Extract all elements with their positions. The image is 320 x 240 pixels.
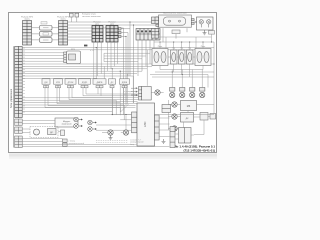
main relay (left of row): [152, 49, 168, 66]
svg-text:ДС: ДС: [50, 132, 53, 134]
ignition switch label: [163, 13, 187, 15]
ground under lamp box: [203, 30, 207, 35]
sensor DTOZh: [65, 79, 76, 84]
junction dots: [96, 21, 215, 115]
arrows into diag box: [131, 87, 138, 96]
ECU strip row lines: [15, 50, 23, 114]
connector XS2 grid: [59, 21, 68, 46]
lamp 2: [207, 20, 211, 24]
coil connector blocks (4x along top right): [170, 88, 205, 92]
svg-text:батареи: батареи: [130, 144, 137, 146]
ECU harness wires (horizontal bundle): [22, 48, 214, 79]
wires ignition module area: [168, 100, 214, 135]
APS immobilizer left pin column: [132, 112, 137, 133]
relay K3: [40, 38, 53, 43]
connector X3 pin header (6 pins with round contacts): [136, 29, 160, 41]
sensor KPK: [54, 79, 63, 84]
sensor DPKV: [120, 79, 130, 84]
injector symbol 2: [74, 124, 83, 129]
K-line box: [162, 105, 171, 113]
wire lamp left: [102, 132, 108, 134]
wire down from switch: [163, 28, 187, 42]
connector X1 grid: [92, 26, 103, 43]
module label box (Модуль зажигания): [55, 118, 78, 127]
node dot top bus: [84, 45, 87, 47]
fuse F4: [187, 50, 194, 64]
battery box: [179, 128, 192, 144]
tachometer lamp bottom-center: [108, 130, 113, 135]
wire switch to lamp box with arrow: [194, 21, 198, 23]
sensor DPDZ: [79, 79, 91, 84]
tiny text left of diag box: [124, 91, 135, 95]
sensors row: sensor DJ: [42, 79, 50, 84]
idle air valve RXX body: [67, 51, 81, 64]
ignition module box: [181, 101, 197, 111]
ground right of APS: [162, 139, 166, 144]
relay row labels: [158, 46, 206, 50]
svg-text:ДТОЖ: ДТОЖ: [68, 82, 74, 84]
ground under lamp: [109, 135, 113, 140]
label above connector XS2: [57, 16, 70, 20]
sensor drop wires turning right: [45, 88, 138, 115]
ECU connector strip column A: [15, 47, 23, 118]
idle air valve RXX pins: [64, 52, 67, 63]
APS immobilizer body: [137, 103, 155, 146]
box APV: [181, 113, 194, 123]
module label text: [62, 121, 72, 126]
dashed distributor box: [30, 127, 58, 138]
wire from fuse block down: [71, 17, 77, 22]
battery wires: [175, 129, 194, 139]
fuse F2: [171, 50, 178, 64]
label above connector X1: [94, 22, 117, 26]
wire lamp2 up: [121, 116, 126, 133]
APS right pin column: [155, 115, 160, 140]
check engine lamp: [151, 90, 164, 95]
ECU strip lower group 3: [15, 136, 23, 148]
tiny box right of dashed: [61, 130, 65, 136]
wires connector XS1 to relays: [32, 28, 40, 40]
staircase wires into APS: [22, 98, 124, 120]
connector X2 grid: [106, 26, 118, 43]
pins right of X2: [119, 28, 121, 38]
svg-text:МЗ: МЗ: [187, 105, 191, 108]
spark symbol 1: [172, 102, 177, 107]
distributor circle: [34, 129, 40, 135]
small box right of APV: [200, 113, 208, 121]
ECU strip lower group 1: [15, 119, 23, 125]
wires relays up: [150, 34, 214, 115]
svg-text:зажигания: зажигания: [62, 124, 72, 126]
svg-text:РХХ: РХХ: [71, 49, 76, 51]
ECU strip lower group 2: [15, 127, 23, 133]
relay K2: [40, 32, 53, 37]
ignition switch pins: [156, 17, 194, 26]
wire module up: [22, 112, 214, 124]
diag box body: [142, 87, 152, 101]
fuse F3: [179, 50, 186, 64]
lamp pins: [201, 24, 208, 27]
injector symbol 3: [88, 120, 97, 125]
indicator lamp box: [197, 17, 214, 30]
label XS1 above connector: [21, 16, 34, 20]
fuse box small top-right: [209, 31, 215, 35]
wires coils up to bus: [172, 70, 202, 88]
ECU block outline: [13, 46, 15, 147]
drawing sheet: [9, 13, 217, 153]
svg-text:АПС: АПС: [143, 121, 147, 127]
svg-text:Блок управления: Блок управления: [10, 88, 13, 108]
fuse block label text: [82, 14, 101, 19]
spark symbol 2: [172, 114, 177, 119]
small box 50 under switch: [172, 30, 180, 34]
svg-text:Модуль: Модуль: [63, 121, 70, 123]
page background: [0, 0, 221, 167]
svg-text:ДМРВ: ДМРВ: [97, 82, 103, 84]
bus line y37 to right: [159, 37, 212, 49]
ignition switch S1: [159, 15, 192, 27]
sensor DS: [109, 79, 116, 84]
svg-text:ДПДЗ: ДПДЗ: [82, 82, 88, 84]
battery pin column: [170, 127, 175, 148]
svg-text:диагностики: диагностики: [124, 93, 135, 95]
DS small box: [48, 129, 57, 135]
text near fuse cells: [69, 140, 84, 145]
relay K1 tiny label: [41, 22, 47, 24]
connector XS1 grid (top-left): [23, 21, 32, 46]
fuel pump relay (right of row): [195, 49, 211, 66]
wires from ECU to dashed box: [22, 129, 60, 133]
svg-text:ДПКВ: ДПКВ: [122, 82, 128, 84]
svg-text:(712 147/335-45/41-01): (712 147/335-45/41-01): [183, 149, 215, 153]
vertical wire drops crossing bundle: [96, 48, 162, 116]
wires APS left: [96, 115, 132, 131]
diag connector H with arrows: [139, 87, 142, 101]
dashed wires bottom-center: [96, 141, 128, 143]
sensor DMRV: [93, 79, 106, 84]
fuse block F1 (two small squares top-center): [68, 12, 80, 17]
wires X2 to right: [121, 28, 130, 115]
bottom wires from ECU: [22, 139, 169, 147]
fuse 15A box far right: [210, 114, 216, 120]
X3 round contacts: [137, 30, 159, 32]
svg-text:предохранителей: предохранителей: [69, 142, 84, 145]
diagonal wire: [120, 104, 128, 112]
sheet bottom shadow: [9, 153, 217, 156]
fuse cells bottom-left: [63, 139, 68, 146]
wires APS right to column: [159, 118, 170, 137]
wire drops from connectors X1 X2 down: [94, 42, 118, 78]
injector symbol 4: [88, 127, 97, 132]
pin number marks beside ECU strip: [23, 48, 24, 112]
connector E grid under switch: [152, 29, 159, 39]
lamp 2 bottom-center: [123, 130, 128, 135]
lamp 1: [199, 20, 203, 24]
relay K1: [40, 26, 53, 31]
svg-text:ДЖ: ДЖ: [44, 82, 47, 84]
coil lamp symbols: [170, 92, 205, 97]
injector symbol 1: [74, 117, 83, 122]
tiny text block bottom-center: [130, 140, 143, 146]
svg-text:системы зажигания: системы зажигания: [82, 16, 101, 18]
wires relays to connector XS2: [52, 28, 59, 40]
sensor pin connectors under row: [44, 85, 128, 87]
top bus wires: [68, 22, 156, 40]
small grid above E: [152, 17, 159, 24]
wires X3 down: [130, 22, 158, 103]
svg-text:Выключатель зажигания: Выключатель зажигания: [163, 13, 187, 15]
spark symbol 3: [172, 126, 177, 131]
